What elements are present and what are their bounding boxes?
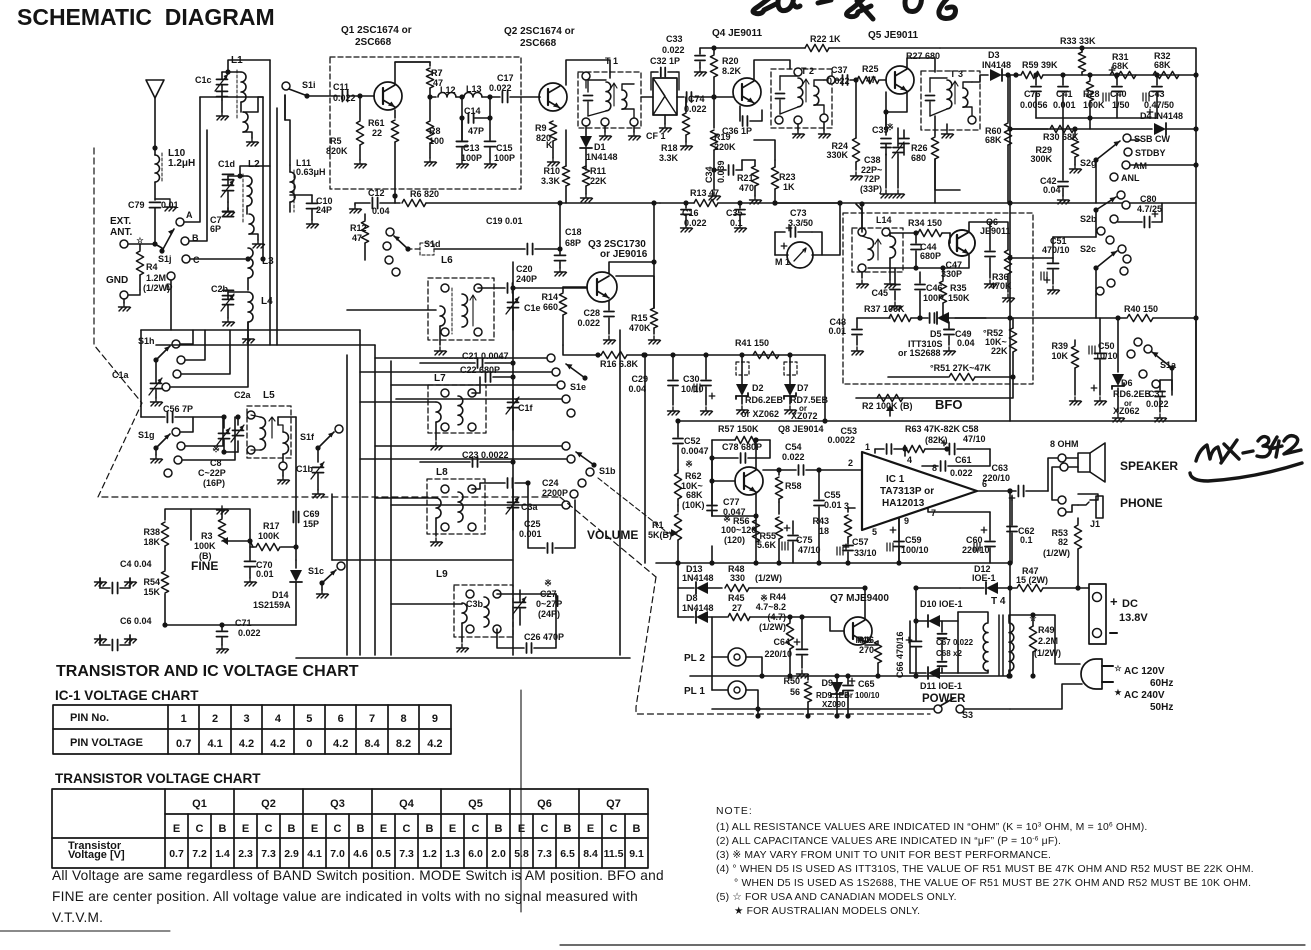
contact STDBY	[1124, 148, 1132, 156]
svg-text:(1) ALL RESISTANCE VALUES: (1) ALL RESISTANCE VALUES ARE INDICATED …	[716, 822, 1147, 834]
svg-text:7.2: 7.2	[192, 848, 207, 860]
svg-text:1.3: 1.3	[445, 848, 460, 860]
svg-text:(4.7): (4.7)	[767, 612, 786, 622]
wire T2 out to C37	[824, 79, 828, 81]
svg-text:4.1: 4.1	[307, 848, 322, 860]
svg-text:C1d: C1d	[218, 159, 235, 169]
wire S1f down	[317, 448, 319, 462]
wire contact B	[189, 130, 207, 241]
link winding of L1	[243, 112, 248, 132]
svg-text:(1/2W): (1/2W)	[1043, 548, 1070, 558]
svg-text:C2b: C2b	[211, 284, 229, 294]
svg-text:C61: C61	[955, 455, 972, 465]
wire BFO bottom to R2	[856, 377, 1013, 398]
svg-text:Q4 JE9011: Q4 JE9011	[712, 28, 762, 39]
svg-text:270: 270	[859, 645, 874, 655]
svg-text:13.8V: 13.8V	[1119, 612, 1148, 624]
svg-text:C31: C31	[1148, 389, 1165, 399]
DC jack	[1089, 584, 1106, 644]
svg-text:1K: 1K	[783, 182, 795, 192]
svg-text:R45: R45	[728, 593, 745, 603]
svg-text:5: 5	[306, 713, 312, 725]
svg-text:IC 1: IC 1	[886, 474, 905, 485]
svg-text:C37: C37	[831, 65, 848, 75]
svg-text:S1b: S1b	[599, 466, 616, 476]
svg-text:1: 1	[865, 442, 870, 452]
wire detector to R2 rail	[824, 355, 826, 421]
svg-text:CF 1: CF 1	[646, 131, 666, 141]
svg-text:PHONE: PHONE	[1120, 496, 1163, 510]
wire verticals left block	[269, 60, 271, 345]
T2 grounds	[797, 124, 799, 130]
capacitor C1d fixed plate	[223, 173, 234, 175]
svg-text:EXT.: EXT.	[110, 216, 131, 227]
svg-text:0.022: 0.022	[782, 452, 805, 462]
T1 secondary winding	[622, 90, 627, 109]
node ext-ant junction	[152, 241, 157, 246]
svg-text:8: 8	[932, 463, 937, 473]
wire Q5 collector to T3	[907, 58, 935, 72]
svg-text:0.04: 0.04	[957, 338, 975, 348]
svg-text:0: 0	[306, 738, 312, 750]
hatch C43	[1143, 93, 1149, 101]
svg-text:6.0: 6.0	[468, 848, 483, 860]
svg-text:☆: ☆	[1114, 664, 1122, 673]
resistor R21 470 body	[751, 166, 758, 186]
svg-text:C: C	[193, 255, 200, 265]
capacitor C34 body	[728, 165, 730, 175]
svg-text:100K: 100K	[258, 531, 280, 541]
svg-text:150K: 150K	[948, 293, 970, 303]
svg-text:R11: R11	[590, 166, 606, 176]
inductor L10 1.2uH	[155, 155, 160, 182]
svg-text:1.2μH: 1.2μH	[168, 158, 195, 169]
svg-text:6: 6	[338, 713, 344, 725]
svg-text:R14: R14	[541, 292, 558, 302]
svg-text:4.2: 4.2	[239, 738, 254, 750]
svg-text:0.0047: 0.0047	[681, 446, 709, 456]
svg-text:B: B	[288, 823, 296, 835]
svg-text:C1c: C1c	[195, 75, 212, 85]
svg-text:R61: R61	[368, 118, 385, 128]
svg-text:TRANSISTOR AND IC VOLTAGE: TRANSISTOR AND IC VOLTAGE CHART	[56, 663, 359, 680]
svg-text:10K: 10K	[1051, 351, 1068, 361]
trimmer C1c second plate	[217, 90, 228, 92]
antenna	[146, 80, 164, 98]
svg-text:2.2M: 2.2M	[1038, 636, 1058, 646]
wire L11 top to S1i	[285, 95, 290, 165]
svg-text:D8: D8	[686, 593, 698, 603]
capacitor C79 0.01	[150, 201, 161, 203]
wire C69 node down	[295, 547, 297, 560]
svg-text:VOLUME: VOLUME	[587, 528, 638, 542]
svg-text:7.3: 7.3	[261, 848, 276, 860]
svg-text:1.2: 1.2	[422, 848, 437, 860]
ground near C79	[155, 199, 170, 203]
svg-text:C79: C79	[128, 200, 145, 210]
C66 body	[915, 588, 917, 640]
svg-text:100~120: 100~120	[721, 525, 756, 535]
svg-text:5K(B): 5K(B)	[648, 530, 672, 540]
svg-text:0.022: 0.022	[950, 468, 973, 478]
svg-text:9: 9	[904, 516, 909, 526]
svg-text:SPEAKER: SPEAKER	[1120, 459, 1178, 473]
D10 final	[928, 615, 940, 627]
wire L1 area vertical	[228, 60, 270, 72]
svg-text:C3b: C3b	[466, 599, 484, 609]
capacitor C26 body	[497, 629, 524, 648]
svg-text:C71: C71	[235, 618, 252, 628]
resistor R32 body	[1153, 71, 1179, 78]
transistor Q2	[539, 83, 567, 111]
svg-text:C11: C11	[333, 82, 349, 92]
svg-text:E: E	[380, 823, 387, 835]
wire detector rail	[644, 354, 825, 356]
svg-text:C6 0.04: C6 0.04	[120, 616, 152, 626]
svg-text:B: B	[426, 823, 434, 835]
svg-text:5.6K: 5.6K	[757, 540, 777, 550]
svg-text:R25: R25	[862, 64, 879, 74]
svg-text:B: B	[357, 823, 365, 835]
wire L2 top	[240, 166, 270, 176]
svg-text:R4: R4	[146, 262, 158, 272]
svg-text:C: C	[610, 823, 618, 835]
svg-text:C55: C55	[824, 490, 841, 500]
svg-text:11.5: 11.5	[604, 848, 624, 860]
node A2	[152, 145, 157, 150]
svg-text:220/10: 220/10	[764, 649, 792, 659]
svg-text:220/10: 220/10	[982, 473, 1010, 483]
svg-text:IC-1 VOLTAGE CHART: IC-1 VOLTAGE CHART	[55, 688, 199, 703]
svg-text:C12: C12	[368, 188, 385, 198]
svg-text:7.3: 7.3	[399, 848, 414, 860]
contact C of S1j	[182, 255, 190, 263]
svg-text:C17: C17	[497, 73, 514, 83]
svg-text:6P: 6P	[210, 224, 221, 234]
svg-text:(1/2W): (1/2W)	[755, 573, 782, 583]
svg-text:(10K): (10K)	[682, 500, 705, 510]
svg-text:S1g: S1g	[138, 430, 155, 440]
svg-text:D1: D1	[594, 142, 606, 152]
table transistor voltage chart	[52, 789, 648, 868]
phone wires	[1058, 508, 1066, 516]
wire AM to right bus	[1130, 164, 1196, 166]
svg-text:0.022: 0.022	[662, 45, 685, 55]
dashed outline left tuning block	[94, 148, 560, 497]
svg-text:XZ062: XZ062	[1113, 406, 1140, 416]
CF1 ground	[664, 115, 666, 124]
wire IF mid horizontal	[332, 559, 513, 561]
C32 bypass side wires	[651, 72, 653, 90]
wire right bus vertical	[1195, 75, 1197, 421]
resistor R4 1.2M 1/2W	[139, 244, 141, 250]
svg-text:R59 39K: R59 39K	[1022, 60, 1058, 70]
speaker return wire	[1068, 466, 1078, 468]
svg-text:0.04: 0.04	[372, 206, 390, 216]
svg-text:0.1: 0.1	[1020, 535, 1033, 545]
hatch C50	[1089, 346, 1095, 354]
svg-text:R15: R15	[631, 313, 648, 323]
svg-text:D3: D3	[988, 50, 1000, 60]
svg-text:L7: L7	[434, 373, 446, 384]
svg-text:R35: R35	[950, 283, 967, 293]
svg-text:E: E	[311, 823, 318, 835]
svg-text:(3) ※ MAY VARY FROM UNIT: (3) ※ MAY VARY FROM UNIT TO UNIT FOR BES…	[716, 850, 1051, 861]
svg-text:R46: R46	[857, 635, 874, 645]
svg-text:R23: R23	[779, 172, 796, 182]
svg-text:82: 82	[1058, 537, 1068, 547]
svg-text:R49: R49	[1038, 625, 1055, 635]
bottom border line	[560, 944, 1305, 946]
transistor Q4	[733, 78, 761, 106]
wire power mid rail	[690, 675, 1010, 677]
svg-text:E: E	[173, 823, 180, 835]
svg-text:220K: 220K	[714, 142, 736, 152]
svg-text:D10 IOE-1: D10 IOE-1	[920, 599, 963, 609]
svg-text:C67: C67	[936, 638, 951, 647]
wire Q8 collector	[755, 440, 757, 469]
svg-text:or 1S2688: or 1S2688	[898, 348, 941, 358]
svg-text:8.4: 8.4	[583, 848, 598, 860]
wire CF1 input	[641, 96, 653, 98]
svg-text:C: C	[265, 823, 273, 835]
svg-text:660: 660	[543, 302, 558, 312]
svg-text:0.7: 0.7	[176, 738, 191, 750]
svg-text:R57 150K: R57 150K	[718, 424, 759, 434]
L7 link coil	[436, 402, 441, 422]
capacitor C69 15P	[292, 512, 294, 523]
svg-text:S1i: S1i	[302, 80, 316, 90]
wire IC output	[977, 490, 1010, 492]
svg-text:2.0: 2.0	[491, 848, 506, 860]
svg-text:° WHEN D5 IS USED AS 1S2: ° WHEN D5 IS USED AS 1S2688, THE VALUE O…	[734, 878, 1251, 889]
svg-text:IOE-1: IOE-1	[972, 573, 996, 583]
wire L14 to rail	[856, 204, 862, 228]
svg-text:K: K	[546, 140, 553, 150]
svg-text:9.1: 9.1	[629, 848, 644, 860]
svg-text:(1/2W): (1/2W)	[1034, 648, 1061, 658]
svg-text:2.9: 2.9	[284, 848, 299, 860]
svg-text:5.8: 5.8	[514, 848, 529, 860]
svg-text:R62: R62	[685, 471, 702, 481]
svg-text:22K: 22K	[991, 346, 1008, 356]
svg-text:C: C	[541, 823, 549, 835]
link winding L5	[283, 432, 289, 454]
link winding of L2	[249, 214, 254, 234]
resistor R56 body	[752, 520, 759, 542]
svg-text:C1e: C1e	[524, 303, 541, 313]
wire diode bridge	[957, 612, 959, 673]
T3 grounds	[946, 124, 948, 130]
svg-text:240P: 240P	[516, 274, 537, 284]
wire block bottom	[1010, 420, 1196, 422]
svg-text:C38: C38	[864, 155, 881, 165]
transistor Q1	[374, 82, 402, 110]
svg-text:4: 4	[907, 455, 912, 465]
wire Q2 collector to T1	[566, 60, 610, 85]
svg-text:4.2: 4.2	[427, 738, 442, 750]
svg-text:C30: C30	[683, 374, 700, 384]
trimmer C27 body	[520, 593, 556, 595]
vertical fold line	[520, 690, 522, 912]
svg-text:T 1: T 1	[605, 56, 618, 66]
svg-text:C21 0.0047: C21 0.0047	[462, 351, 509, 361]
svg-text:8.2: 8.2	[396, 738, 411, 750]
svg-text:C24: C24	[542, 478, 559, 488]
svg-text:C57: C57	[852, 537, 869, 547]
svg-text:4.7~8.2: 4.7~8.2	[756, 602, 786, 612]
svg-text:4.1: 4.1	[207, 738, 222, 750]
wire L10 to C79	[154, 182, 156, 200]
table IC-1 voltage chart	[53, 705, 451, 754]
wire Q4 collector to T2	[754, 60, 790, 80]
wire L5 to S1f	[277, 417, 279, 425]
svg-text:R54: R54	[143, 577, 160, 587]
svg-text:(120): (120)	[724, 535, 745, 545]
transistor Q5	[886, 66, 914, 94]
svg-text:S1j: S1j	[158, 254, 172, 264]
svg-text:72P: 72P	[864, 174, 880, 184]
svg-text:100P: 100P	[494, 153, 515, 163]
R56 bottom wire	[711, 546, 713, 563]
wire FINE bottom	[165, 624, 296, 626]
svg-text:47/10: 47/10	[798, 545, 821, 555]
svg-text:B: B	[633, 823, 641, 835]
handwritten model number MX-342	[1190, 436, 1302, 481]
wire R40 to bus	[1010, 317, 1096, 319]
svg-text:RD6.2EB: RD6.2EB	[745, 395, 784, 405]
svg-text:All Voltage are same regar: All Voltage are same regardless of BAND …	[52, 868, 664, 883]
svg-text:C1f: C1f	[518, 403, 534, 413]
wire band bus horizontals	[141, 329, 360, 331]
svg-text:Q6: Q6	[537, 798, 552, 810]
wire speaker	[1048, 458, 1058, 491]
L6 dashes	[451, 288, 453, 334]
svg-text:D2: D2	[752, 383, 764, 393]
svg-text:C1a: C1a	[112, 370, 130, 380]
svg-text:68K: 68K	[1154, 60, 1171, 70]
svg-text:C77: C77	[723, 497, 740, 507]
wire L4 to bus	[247, 322, 249, 345]
svg-text:C25: C25	[524, 519, 541, 529]
wire lamps left	[712, 656, 728, 658]
svg-text:C54: C54	[785, 442, 802, 452]
wire Q4 base node	[711, 167, 716, 172]
svg-text:Q2 2SC1674 or: Q2 2SC1674 or	[504, 26, 575, 37]
C38/C39 bodies	[881, 138, 891, 140]
contact SSB CW	[1123, 134, 1131, 142]
wire S1b column vertical	[331, 494, 333, 560]
svg-text:R41 150: R41 150	[735, 338, 769, 348]
resistor R31 body	[1110, 71, 1136, 78]
svg-text:0.04: 0.04	[628, 384, 646, 394]
svg-text:L6: L6	[441, 255, 453, 266]
AC plug	[1081, 659, 1102, 689]
svg-text:C14: C14	[464, 106, 481, 116]
mech link dash	[598, 478, 668, 533]
svg-text:DC: DC	[1122, 598, 1138, 610]
svg-text:D5: D5	[930, 329, 942, 339]
svg-text:R27 680: R27 680	[906, 51, 940, 61]
svg-text:330K: 330K	[826, 150, 848, 160]
svg-text:S2c: S2c	[1080, 244, 1096, 254]
svg-text:R26: R26	[911, 143, 928, 153]
wire lamps column up	[711, 617, 713, 657]
svg-text:8 OHM: 8 OHM	[1050, 439, 1079, 449]
T1 grounds	[604, 126, 606, 132]
wire contact D down	[170, 280, 172, 330]
contact D of S1j	[167, 272, 175, 280]
svg-text:100: 100	[429, 136, 444, 146]
svg-text:22K: 22K	[590, 176, 607, 186]
svg-text:S2b: S2b	[1080, 214, 1097, 224]
svg-text:0.001: 0.001	[1053, 100, 1076, 110]
svg-text:C28: C28	[583, 308, 600, 318]
svg-text:R63 47K-82K: R63 47K-82K	[905, 424, 961, 434]
svg-text:3.3K: 3.3K	[659, 153, 679, 163]
dashed box Q1 stage	[330, 57, 521, 189]
svg-text:Q7 MJE9400: Q7 MJE9400	[830, 593, 889, 604]
svg-text:L4: L4	[261, 296, 273, 307]
svg-text:1N4148: 1N4148	[682, 573, 714, 583]
svg-text:L5: L5	[263, 390, 275, 401]
svg-text:or: or	[845, 691, 853, 700]
svg-text:68P: 68P	[565, 238, 581, 248]
svg-text:0.63μH: 0.63μH	[296, 167, 326, 177]
svg-text:(2) ALL CAPACITANCE VALUES: (2) ALL CAPACITANCE VALUES ARE INDICATED…	[716, 836, 1061, 848]
dashed box BFO	[843, 213, 1033, 384]
svg-text:S1f: S1f	[300, 432, 315, 442]
svg-text:AC 120V: AC 120V	[1124, 666, 1165, 677]
wire CF1 to C74	[677, 96, 684, 98]
svg-text:C22 680P: C22 680P	[460, 365, 500, 375]
svg-text:C~22P: C~22P	[198, 468, 226, 478]
svg-text:C69: C69	[303, 509, 320, 519]
hatch C51	[1041, 272, 1047, 280]
wire S1f column	[295, 417, 297, 512]
svg-text:4.2: 4.2	[333, 738, 348, 750]
svg-text:+: +	[1110, 594, 1118, 609]
svg-text:4.6: 4.6	[353, 848, 368, 860]
svg-text:S1h: S1h	[138, 336, 155, 346]
svg-text:PIN VOLTAGE: PIN VOLTAGE	[70, 737, 143, 749]
wire T1 top pin	[609, 72, 611, 78]
svg-text:R20: R20	[722, 56, 739, 66]
svg-text:C13: C13	[463, 143, 480, 153]
svg-text:°R51 27K~47K: °R51 27K~47K	[930, 363, 991, 373]
svg-text:(5) ☆ FOR USA AND CANADIA: (5) ☆ FOR USA AND CANADIAN MODELS ONLY.	[716, 892, 957, 903]
short page line bottom-left	[0, 930, 170, 932]
contacts S1h	[172, 340, 180, 348]
svg-text:1.2M: 1.2M	[146, 273, 166, 283]
svg-text:C66 470/16: C66 470/16	[895, 631, 905, 678]
wire x620 vertical	[619, 330, 621, 655]
wires S1h contacts	[180, 330, 193, 344]
svg-text:C33: C33	[666, 34, 683, 44]
svg-text:L14: L14	[876, 215, 892, 225]
dashed outline mid connector	[560, 497, 656, 577]
svg-text:1: 1	[181, 713, 187, 725]
svg-text:AM: AM	[1133, 161, 1147, 171]
svg-text:R34 150: R34 150	[908, 218, 942, 228]
svg-text:XZ090: XZ090	[822, 700, 846, 709]
svg-text:※: ※	[544, 578, 552, 588]
wire left vertical x141	[140, 330, 142, 417]
svg-text:8.2K: 8.2K	[722, 66, 742, 76]
svg-text:S1d: S1d	[424, 239, 441, 249]
svg-text:4: 4	[275, 713, 282, 725]
L6 link coil	[440, 306, 445, 326]
